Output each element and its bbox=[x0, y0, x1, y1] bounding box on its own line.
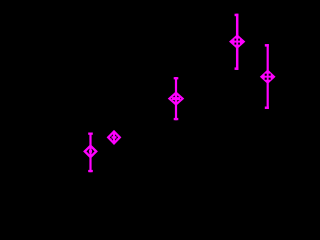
errorbar top cap bbox=[235, 14, 239, 17]
errorbar bottom cap bbox=[235, 67, 239, 70]
marker vertical arm bbox=[175, 94, 177, 104]
diamond marker outer bbox=[260, 69, 276, 84]
marker hole bbox=[269, 78, 271, 80]
y-errorbar line bbox=[175, 77, 177, 120]
marker hole bbox=[238, 39, 240, 41]
data point 4 at (237.2,41.6) bbox=[229, 14, 245, 70]
x-error dash bbox=[172, 97, 181, 100]
x-error dash bbox=[112, 136, 117, 138]
errorbar top cap bbox=[174, 77, 179, 79]
y-errorbar line bbox=[89, 133, 91, 173]
data point 3 at (176.0,98.9) bbox=[168, 77, 185, 120]
diamond marker outer bbox=[168, 91, 185, 106]
marker hole bbox=[235, 39, 237, 41]
marker hole bbox=[269, 74, 271, 76]
data point 5 at (267.7,76.7) bbox=[260, 44, 276, 109]
y-errorbar line bbox=[267, 44, 269, 109]
errorbar bottom cap bbox=[88, 170, 93, 172]
diamond marker inner hole bbox=[171, 95, 182, 103]
diamond marker inner hole bbox=[87, 147, 95, 155]
marker hole bbox=[265, 74, 267, 76]
x-error dash (dot) bbox=[89, 150, 92, 153]
marker vertical arm bbox=[89, 147, 91, 156]
diamond marker inner hole bbox=[110, 133, 118, 142]
errorbar top cap bbox=[265, 44, 269, 47]
marker hole bbox=[265, 78, 267, 80]
errorbar bottom cap bbox=[265, 107, 269, 110]
data point 2 at (114.0,137.4) bbox=[107, 130, 122, 145]
y-errorbar line bbox=[236, 14, 239, 70]
diamond marker outer bbox=[229, 34, 245, 49]
marker vertical arm bbox=[113, 133, 115, 143]
diamond marker outer bbox=[83, 144, 98, 159]
data point 1 at (90.5,151.4) bbox=[83, 133, 98, 173]
marker hole bbox=[238, 43, 240, 45]
marker hole bbox=[235, 43, 237, 45]
errorbar top cap bbox=[88, 133, 93, 135]
errorbar bottom cap bbox=[174, 118, 179, 120]
diamond marker outer bbox=[107, 130, 122, 145]
